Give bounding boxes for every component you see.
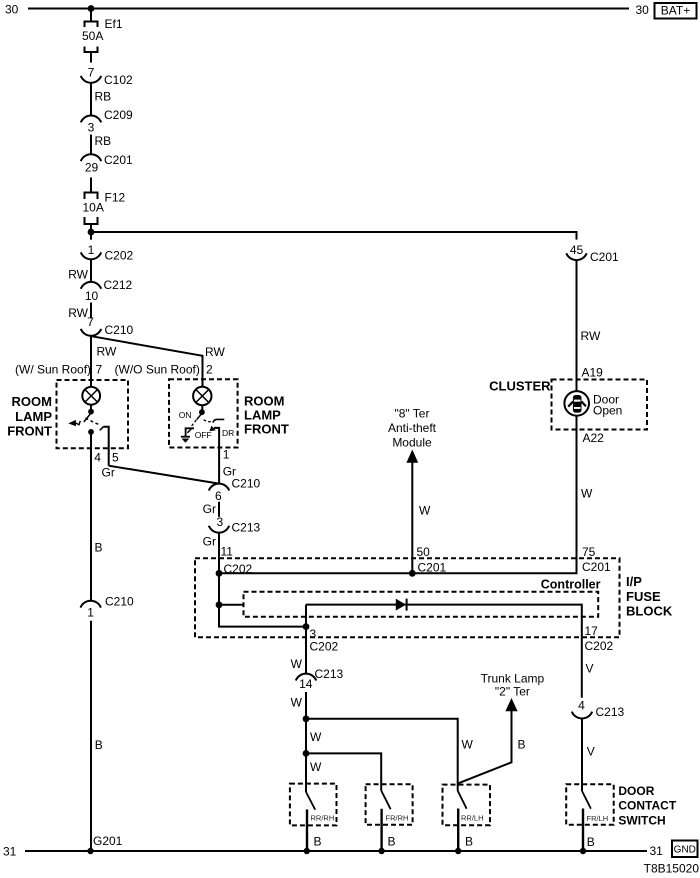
room lamp front left dashed box [57,380,129,448]
junction FR/RH ground [378,848,384,854]
svg-text:W: W [291,696,303,710]
svg-text:B: B [95,541,103,555]
wire top rail 30 [28,8,629,10]
switch travel dashes left lamp [86,418,100,425]
junction pin 11 rail [216,570,223,577]
connector C201 pin 29 [81,153,133,192]
svg-text:RW: RW [97,344,117,358]
wire W pin 3 down [305,627,307,674]
svg-text:C202: C202 [310,640,339,654]
svg-text:CONTACT: CONTACT [618,799,676,813]
switch blade left lamp [84,413,91,422]
junction branch to FR/RH [303,750,310,757]
svg-text:RB: RB [95,90,112,104]
svg-text:G201: G201 [93,834,123,848]
connector C213 pin 4 [572,699,625,720]
connector C212 pin 10 [81,278,133,303]
svg-text:"8" Ter: "8" Ter [395,407,430,421]
svg-text:RW: RW [68,306,88,320]
svg-text:B: B [518,738,526,752]
door contact switch FR/LH [566,784,614,851]
ROOM LAMP FRONT right label [244,393,289,436]
wire RW diagonal to right room lamp [91,336,202,387]
wire Gr [218,502,220,517]
svg-text:75: 75 [582,545,596,559]
connector C213 pin 14 [296,667,344,691]
svg-text:A19: A19 [582,366,604,380]
svg-text:50A: 50A [82,29,103,43]
DR contact hook [213,419,224,422]
wire RW to left room lamp [90,336,92,387]
door open indicator [564,391,589,416]
svg-text:10: 10 [85,289,99,303]
wire RW [90,259,92,282]
wire W down with branches [305,692,307,784]
I/P FUSE BLOCK label [626,574,673,619]
cluster dashed box [552,380,648,430]
wire lamp to switch pivot right [201,405,203,412]
ground symbol in right lamp [181,437,190,443]
svg-text:Open: Open [593,404,622,418]
svg-text:5: 5 [112,450,119,464]
svg-text:B: B [587,835,595,849]
I/P fuse block dashed box [195,558,620,637]
svg-text:30: 30 [5,3,19,17]
svg-text:C201: C201 [590,250,619,264]
DOOR CONTACT SWITCH label [618,784,676,828]
svg-text:DOOR: DOOR [618,784,654,798]
svg-text:FUSE: FUSE [626,589,661,604]
svg-text:3: 3 [216,515,223,529]
svg-text:A22: A22 [583,431,605,445]
junction at top rail [88,5,95,12]
svg-text:T8B15020: T8B15020 [644,862,700,876]
switch blade right lamp [197,413,202,419]
svg-text:FRONT: FRONT [7,424,52,439]
svg-text:W: W [310,730,322,744]
svg-text:C212: C212 [104,278,133,292]
junction at branch rail [88,229,95,236]
svg-text:W: W [291,657,303,671]
wire W A22 to pin 75 and rail into fuse block [219,430,577,574]
svg-text:B: B [388,834,396,848]
svg-text:DR: DR [222,428,234,438]
svg-text:30: 30 [636,3,650,17]
svg-text:B: B [314,834,322,848]
wire controller tap down [305,605,307,627]
svg-text:C210: C210 [105,323,134,337]
junction pin 50 rail [409,570,416,577]
svg-text:W: W [581,487,593,501]
wire ground rail 31 [25,850,647,852]
junction FR/LH ground [580,848,586,854]
svg-text:C201: C201 [104,153,133,167]
svg-text:(W/O Sun Roof): (W/O Sun Roof) [115,362,200,376]
arrow to anti-theft module [406,450,418,463]
svg-text:C213: C213 [596,705,625,719]
svg-text:RW: RW [68,268,88,282]
svg-text:C210: C210 [232,476,261,490]
wire stub to controller [219,604,244,606]
svg-text:45: 45 [570,243,584,257]
node BAT+ box [655,3,697,19]
wire RW right column [576,260,578,379]
svg-text:C213: C213 [315,667,344,681]
svg-text:V: V [587,745,595,759]
wire B pin 4 down [90,432,92,601]
svg-text:CLUSTER: CLUSTER [489,379,551,394]
wire RB [90,83,92,116]
connector C201 pin 45 [566,243,619,264]
connector C210 pin 1 [81,595,135,620]
wire Gr diagonal pin5 to C210 pin 6 [109,466,219,484]
svg-text:SWITCH: SWITCH [618,813,665,827]
junction RR/LH ground [455,848,461,854]
svg-text:4: 4 [94,450,101,464]
arrow to trunk lamp [505,698,517,711]
svg-text:Ef1: Ef1 [105,17,123,31]
controller wire with diode to pin 17 [306,605,582,638]
OFF contact tick [187,429,191,433]
door contact switch RR/LH [443,785,491,851]
svg-text:LAMP: LAMP [15,409,52,424]
connector C209 pin 3 [81,108,133,135]
svg-text:I/P: I/P [626,574,642,589]
junction controller stub [216,601,223,608]
svg-text:C201: C201 [582,560,611,574]
svg-text:C210: C210 [105,595,134,609]
svg-text:(W/ Sun Roof): (W/ Sun Roof) [15,362,91,376]
svg-text:ROOM: ROOM [244,393,284,408]
svg-text:Gr: Gr [203,534,216,548]
lamp left (bulb) [82,387,100,405]
svg-text:31: 31 [3,845,17,859]
svg-text:F12: F12 [105,191,126,205]
svg-text:Anti-theft: Anti-theft [388,421,437,435]
svg-text:W: W [419,504,431,518]
wire branch rail to right column [91,232,577,240]
lamp right (bulb) [193,387,211,405]
junction RR/RH ground [304,848,310,854]
connector C202 pin 1 [81,232,134,263]
svg-text:1: 1 [87,605,94,619]
door contact switch RR/RH [290,784,337,851]
diode [396,599,407,611]
svg-text:OFF: OFF [195,430,212,440]
svg-text:17: 17 [585,624,599,638]
door contact switch FR/RH [366,784,413,851]
trunk lamp labels [481,672,545,699]
svg-text:1: 1 [88,243,95,257]
svg-text:V: V [586,662,594,676]
wire Gr to fuse block pin 11 [219,533,306,627]
svg-text:C202: C202 [585,639,614,653]
wire B left column to ground [90,621,92,851]
junction right lamp switch [199,409,205,415]
switch actuator arrow left lamp [68,420,80,426]
svg-text:ROOM: ROOM [12,394,52,409]
junction lamp switch top [88,409,94,415]
svg-text:10A: 10A [83,201,104,215]
wire RB [90,135,92,155]
svg-text:14: 14 [299,677,313,691]
svg-text:FRONT: FRONT [244,421,289,436]
wire branch to FR/RH switch [306,753,381,790]
svg-text:Controller: Controller [541,578,601,592]
svg-text:7: 7 [88,66,95,80]
ROOM LAMP FRONT left label [7,394,52,439]
svg-text:RR/LH: RR/LH [461,814,484,823]
svg-text:B: B [465,835,473,849]
svg-text:"2" Ter: "2" Ter [495,685,530,699]
junction pin 3 [303,623,310,630]
switch contact to pin 5 [100,427,109,466]
room lamp front right dashed box [169,379,238,447]
svg-text:31: 31 [650,844,664,858]
wire through cluster [576,380,578,430]
svg-text:C201: C201 [418,561,447,575]
node GND box [672,841,698,858]
svg-text:Module: Module [392,435,432,449]
junction lamp switch bottom [88,429,94,435]
svg-text:LAMP: LAMP [244,407,281,422]
svg-text:RB: RB [95,134,112,148]
DR terminal arrow to pin 1 [209,426,219,484]
wire B to trunk lamp [458,710,511,783]
anti-theft module labels [388,407,437,450]
svg-text:BLOCK: BLOCK [626,604,673,619]
svg-text:50: 50 [417,545,431,559]
svg-text:7: 7 [96,362,103,376]
connector C102 pin 7 [81,66,133,87]
controller dashed box [244,592,599,617]
svg-text:ON: ON [179,410,192,420]
svg-text:GND: GND [674,845,696,856]
svg-text:FR/LH: FR/LH [587,814,609,823]
fuse F12 10A [83,191,126,233]
wire V to door switch [581,719,583,792]
svg-text:Gr: Gr [102,466,115,480]
wire V pin 17 down [581,637,583,697]
wire OFF contact to ground [186,428,194,436]
wire W to pin 50 [411,462,413,574]
svg-text:B: B [95,738,103,752]
junction branch to RR/LH [303,715,310,722]
svg-text:W: W [462,738,474,752]
svg-text:29: 29 [85,161,99,175]
switch travel dashes right lamp [204,420,213,422]
svg-text:C209: C209 [104,108,133,122]
svg-text:1: 1 [223,447,230,461]
svg-text:W: W [310,760,322,774]
svg-text:6: 6 [215,489,222,503]
junction G201 [87,848,93,854]
svg-text:Gr: Gr [203,502,216,516]
svg-text:BAT+: BAT+ [661,4,690,18]
svg-text:C102: C102 [104,73,133,87]
fuse Ef1 50A [82,9,123,63]
connector C210 pin 6 [209,476,261,503]
svg-text:Trunk Lamp: Trunk Lamp [481,672,545,686]
svg-text:11: 11 [221,545,234,559]
connector C213 pin 3 [209,515,261,534]
connector C210 pin 7 [81,315,134,337]
svg-text:3: 3 [88,121,95,135]
svg-text:RR/RH: RR/RH [311,814,335,823]
wire RW [90,303,92,318]
svg-text:FR/RH: FR/RH [386,813,409,822]
svg-text:RW: RW [205,345,225,359]
svg-text:7: 7 [87,315,94,329]
svg-text:2: 2 [206,362,213,376]
svg-text:C202: C202 [105,249,134,263]
wire lamp to switch pivot [90,405,92,412]
wire branch to RR/LH switch [306,719,458,791]
svg-text:RW: RW [581,329,601,343]
svg-text:C213: C213 [232,521,261,535]
svg-text:4: 4 [578,699,585,713]
